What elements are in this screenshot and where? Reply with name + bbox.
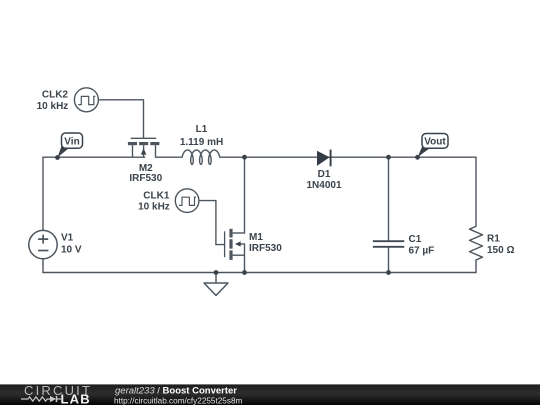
- svg-text:C1: C1: [409, 234, 422, 245]
- svg-text:150 Ω: 150 Ω: [487, 245, 514, 256]
- node junction dot ground / bottom rail: [214, 270, 219, 275]
- capacitor C1: [373, 241, 405, 247]
- clock source CLK1: [175, 189, 199, 213]
- wire right rail upper (Vout corner to R1 top): [475, 157, 477, 226]
- svg-text:10 V: 10 V: [61, 244, 82, 255]
- wire M1 drain column (top rail junction down to M1 drain): [244, 157, 246, 233]
- svg-text:IRF530: IRF530: [249, 243, 282, 254]
- transistor M1 (NMOS, vertical): [225, 229, 245, 260]
- resistor R1: [470, 226, 483, 260]
- svg-text:D1: D1: [318, 169, 331, 180]
- svg-text:CLK2: CLK2: [42, 90, 69, 101]
- svg-text:R1: R1: [487, 234, 500, 245]
- wire right rail lower (R1 bottom to bottom rail): [475, 260, 477, 273]
- wire M1 source/body tie down to bottom rail: [244, 244, 246, 273]
- wire left rail upper (Vin corner down to V1 plus terminal): [42, 157, 44, 230]
- footer bar: [0, 383, 540, 405]
- wire ground stub: [215, 273, 217, 284]
- svg-text:67 µF: 67 µF: [409, 245, 435, 256]
- wire C1 top lead: [388, 157, 390, 241]
- wire CLK2 output to M2 gate: [98, 100, 143, 139]
- diode D1: [317, 150, 331, 167]
- wire bottom rail (ground net): [43, 272, 476, 274]
- wire top rail from M2 source to inductor L1: [156, 156, 183, 158]
- net label Vin: [55, 133, 82, 160]
- wire top rail from L1 through D1 to Vout corner: [220, 156, 476, 158]
- node junction dot C1 bottom / bottom rail: [386, 270, 391, 275]
- svg-text:V1: V1: [61, 232, 74, 243]
- svg-text:10 kHz: 10 kHz: [138, 202, 170, 213]
- svg-text:LAB: LAB: [61, 391, 91, 405]
- inductor L1: [182, 150, 220, 164]
- svg-text:geralt233 / Boost Converter: geralt233 / Boost Converter: [115, 385, 237, 396]
- wire top rail left segment (Vin node to M2 drain): [43, 156, 145, 158]
- svg-text:10 kHz: 10 kHz: [37, 101, 69, 112]
- ground: [204, 283, 228, 296]
- wire left rail lower (V1 minus terminal to bottom rail): [42, 259, 44, 273]
- svg-text:Vin: Vin: [64, 136, 79, 147]
- node junction dot C1 top / top rail: [386, 155, 391, 160]
- svg-text:http://circuitlab.com/cfy2255t: http://circuitlab.com/cfy2255t25s8m: [114, 396, 243, 405]
- svg-text:L1: L1: [196, 124, 208, 135]
- transistor M2 (NMOS, horizontal): [128, 138, 159, 157]
- net label Vout: [415, 134, 448, 160]
- svg-text:IRF530: IRF530: [129, 173, 162, 184]
- svg-text:CLK1: CLK1: [143, 190, 170, 201]
- svg-text:M1: M1: [249, 232, 263, 243]
- svg-text:1N4001: 1N4001: [306, 180, 341, 191]
- footer logo doodle (resistor + diode): [21, 396, 61, 402]
- wire CLK1 output to M1 gate: [199, 201, 225, 245]
- node junction dot M1 drain / top rail: [242, 155, 247, 160]
- voltage source V1: [29, 230, 57, 258]
- svg-text:1.119 mH: 1.119 mH: [180, 137, 223, 148]
- svg-text:Vout: Vout: [424, 137, 446, 148]
- clock source CLK2: [74, 88, 98, 112]
- wire C1 bottom lead: [388, 247, 390, 273]
- node junction dot M1 source / bottom rail: [242, 270, 247, 275]
